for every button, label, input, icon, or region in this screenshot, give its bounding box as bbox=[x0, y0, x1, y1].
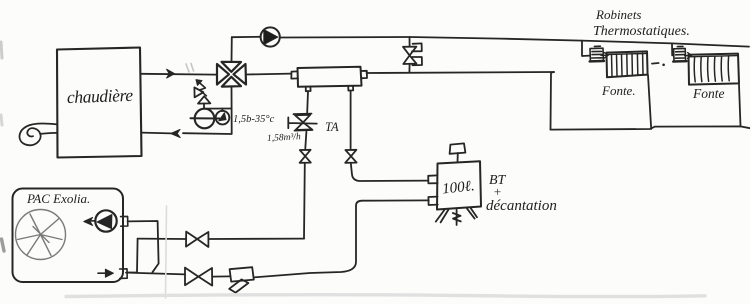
arrow right at PAC lower port bbox=[98, 272, 110, 274]
pipe: radiator1 return drop bbox=[648, 75, 651, 129]
tank upper port bbox=[428, 175, 437, 183]
pipe: TA valve to shutoff valve bbox=[305, 132, 306, 149]
pressure gauge bbox=[195, 109, 215, 129]
arrow right on boiler supply bbox=[167, 69, 175, 78]
shutoff valve V5 on return bbox=[186, 232, 197, 247]
tank vent cap bbox=[457, 153, 459, 162]
pipe: return drop to PAC lower port bbox=[127, 239, 137, 273]
boiler drain pigtail bbox=[19, 123, 57, 145]
pipe: radiator2 return drop bbox=[739, 85, 741, 127]
safety group branch line bbox=[204, 108, 232, 110]
buffer tank 100l bbox=[437, 161, 481, 209]
arrow into radiator 1 bbox=[601, 52, 608, 58]
tank lower port bbox=[428, 197, 437, 205]
thermostatic valve 1 bbox=[590, 48, 603, 61]
svg-text:+: + bbox=[493, 184, 502, 199]
pipe: right drop to return collector bbox=[551, 72, 555, 130]
heat exchanger (hydraulic separator) bbox=[298, 67, 362, 87]
shutoff valve V4 bbox=[345, 150, 356, 156]
svg-text:Fonte.: Fonte. bbox=[601, 83, 636, 98]
pipe: boiler supply to 4-way valve bbox=[142, 73, 217, 76]
radiator 1 Fonte bbox=[607, 51, 648, 77]
svg-text:100ℓ.: 100ℓ. bbox=[441, 178, 475, 197]
pipe: mid line exchanger to right drop bbox=[367, 72, 555, 73]
faint bottom smudge bbox=[66, 295, 705, 297]
pipe: 4-way valve bottom to boiler return bbox=[183, 87, 232, 134]
svg-text:1,58m³/h: 1,58m³/h bbox=[267, 132, 301, 144]
tank right leg bbox=[467, 208, 477, 218]
bypass valve actuator hooks bbox=[412, 43, 422, 51]
radiator 2 Fonte bbox=[689, 54, 740, 85]
strainer filter bbox=[230, 267, 254, 281]
arrow left at PAC pump bbox=[87, 220, 96, 222]
arrow into radiator 2 bbox=[685, 53, 692, 59]
PAC fan bbox=[16, 210, 66, 260]
svg-text:PAC Exolia.: PAC Exolia. bbox=[26, 191, 90, 206]
pipe: PAC pump out to lower line bbox=[128, 221, 159, 272]
pipe: exchanger left leg down bbox=[306, 91, 309, 112]
continuation dash-dot between radiators bbox=[652, 62, 659, 65]
tank drain bbox=[453, 210, 461, 225]
faint left-edge marks bbox=[1, 42, 2, 58]
pipe: drop to radiator 1 valve bbox=[582, 41, 590, 56]
faint crease line bbox=[166, 206, 167, 298]
faint pencil ticks near 4-way valve bbox=[186, 64, 194, 73]
PAC Exolia unit box bbox=[13, 189, 124, 283]
PAC lower port bbox=[120, 269, 128, 279]
4-way mixing valve bbox=[217, 62, 246, 87]
pipe: drop to radiator 2 valve bbox=[672, 43, 674, 55]
pipe: filter to tank lower port bbox=[254, 200, 429, 277]
svg-text:1,5b-35°c: 1,5b-35°c bbox=[233, 114, 275, 125]
pipe: mid line 4-way valve to exchanger bbox=[246, 73, 291, 76]
thermostatic valve 2 bbox=[674, 48, 686, 61]
pipe: exchanger right leg down bbox=[350, 91, 352, 149]
safety relief valve bbox=[203, 103, 205, 108]
pipe: 4-way valve up to pump line bbox=[231, 37, 233, 62]
shutoff valve V6 on supply bbox=[185, 268, 198, 286]
svg-text:décantation: décantation bbox=[486, 198, 557, 214]
pipe: return line to PAC (y239) bbox=[208, 238, 304, 240]
svg-text:Fonte: Fonte bbox=[692, 86, 725, 101]
svg-text:chaudière: chaudière bbox=[67, 85, 134, 107]
shutoff valve V3 bbox=[300, 150, 311, 156]
pipe: lower supply line (y273) bbox=[126, 273, 185, 275]
balancing valve TA bbox=[294, 113, 312, 116]
pipe: left leg down to PAC return line bbox=[303, 163, 306, 238]
arrow left on boiler return bbox=[171, 129, 180, 137]
svg-text:TA: TA bbox=[325, 120, 339, 134]
pump P1 (circulator) bbox=[261, 27, 280, 46]
svg-text:Robinets: Robinets bbox=[595, 7, 642, 22]
thermometer bbox=[221, 109, 223, 112]
PAC upper port bbox=[121, 216, 128, 226]
pipe: radiator return collector bbox=[551, 126, 750, 129]
differential bypass valve bbox=[409, 37, 411, 46]
svg-text:Thermostatiques.: Thermostatiques. bbox=[593, 24, 690, 39]
pipe: top supply line bbox=[232, 36, 260, 38]
PAC internal pump bbox=[95, 210, 116, 231]
tank left leg bbox=[436, 209, 449, 222]
pipe: right leg to buffer tank upper port bbox=[351, 163, 428, 181]
boiler chaudière box bbox=[57, 48, 142, 158]
